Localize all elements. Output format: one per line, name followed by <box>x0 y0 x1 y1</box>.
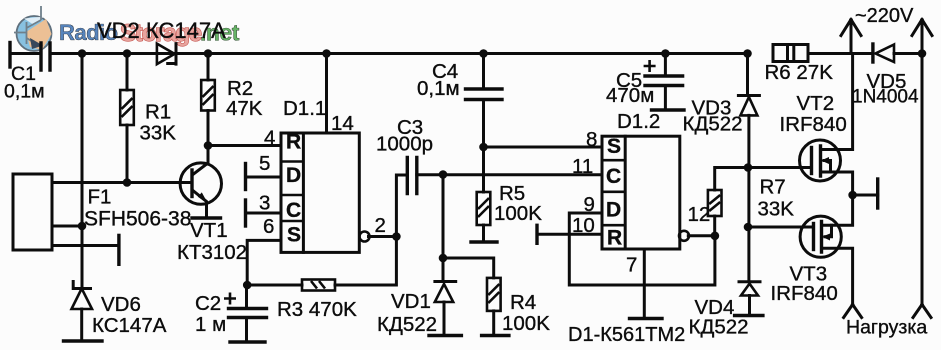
diode VD5 <box>871 44 874 62</box>
svg-text:7: 7 <box>626 254 637 277</box>
capacitor C1 <box>41 43 50 70</box>
pin 6 wire (S) <box>247 240 281 285</box>
svg-text:100K: 100K <box>502 312 550 335</box>
resistor R2 <box>207 54 210 146</box>
node: main supply rail <box>10 52 41 55</box>
svg-text:0,1м: 0,1м <box>417 77 460 100</box>
pin 2 output bubble <box>360 232 370 242</box>
svg-text:VT1: VT1 <box>190 219 228 242</box>
svg-text:R7: R7 <box>760 176 786 199</box>
svg-text:D1.2: D1.2 <box>617 110 660 133</box>
diode VD3 <box>746 54 749 95</box>
svg-text:R: R <box>607 227 622 250</box>
pin 5 stub (D) <box>246 176 282 179</box>
svg-text:C: C <box>606 165 621 188</box>
diode VD4 <box>739 280 760 283</box>
svg-text:VD1: VD1 <box>391 290 431 313</box>
svg-text:SFH506-38: SFH506-38 <box>84 208 191 231</box>
resistor R4 <box>443 258 494 278</box>
logo text <box>59 20 240 48</box>
svg-text:6: 6 <box>263 215 274 238</box>
svg-text:4: 4 <box>264 127 275 150</box>
D flip-flop D1.1 <box>281 133 359 252</box>
svg-text:33K: 33K <box>140 122 177 145</box>
transistor VT1 <box>180 163 221 204</box>
zener VD6 <box>73 282 90 289</box>
svg-text:0,1м: 0,1м <box>4 81 45 103</box>
capacitor C4 <box>482 54 485 90</box>
svg-text:1 м: 1 м <box>195 313 226 336</box>
input terminal bar <box>8 43 11 68</box>
mains input arrows ~220V <box>841 20 861 54</box>
svg-text:470м: 470м <box>606 84 654 107</box>
svg-text:D: D <box>606 199 621 222</box>
pin 12 output bubble <box>679 231 689 241</box>
svg-text:КС147А: КС147А <box>92 314 167 337</box>
resistor R6 <box>773 45 808 62</box>
pin 7 ground <box>643 249 646 319</box>
capacitor C3 <box>396 175 407 237</box>
svg-text:D1-К561ТМ2: D1-К561ТМ2 <box>568 324 685 346</box>
svg-text:КД522: КД522 <box>689 316 749 339</box>
svg-text:R3 470K: R3 470K <box>277 298 357 321</box>
svg-text:R1: R1 <box>145 101 171 124</box>
svg-text:C: C <box>286 199 301 222</box>
transistor VT3 (MOSFET) <box>800 216 841 257</box>
svg-text:2: 2 <box>375 214 386 237</box>
svg-text:47K: 47K <box>226 97 263 120</box>
svg-text:Нагрузка: Нагрузка <box>846 317 927 339</box>
svg-text:VD6: VD6 <box>101 293 141 316</box>
svg-text:S: S <box>287 224 301 247</box>
svg-text:14: 14 <box>331 112 354 135</box>
svg-text:33K: 33K <box>758 198 795 221</box>
svg-text:1N4004: 1N4004 <box>852 87 919 108</box>
svg-text:5: 5 <box>259 152 270 175</box>
svg-text:R6 27K: R6 27K <box>765 61 834 84</box>
svg-text:100K: 100K <box>494 202 542 225</box>
load fork terminals <box>844 305 862 318</box>
svg-text:F1: F1 <box>88 186 112 209</box>
svg-text:VT2: VT2 <box>797 92 835 115</box>
pin 9 (D) feedback wire <box>569 213 715 285</box>
diode VD1 <box>442 175 445 282</box>
svg-text:КД522: КД522 <box>377 313 437 336</box>
wire: pin 8 (S) <box>484 146 603 149</box>
svg-text:11: 11 <box>572 155 593 178</box>
pin 4 wire (R) <box>208 144 281 147</box>
common source node bar <box>848 191 857 200</box>
resistor R1 <box>126 54 129 183</box>
svg-text:1000p: 1000p <box>376 133 433 156</box>
capacitor C2 <box>245 285 248 342</box>
wire: C1 junction down to F1 <box>81 54 84 289</box>
svg-text:VD2 КС147А: VD2 КС147А <box>97 18 226 43</box>
svg-text:КД522: КД522 <box>683 113 743 136</box>
pin 14 wire <box>325 54 328 134</box>
resistor R5 <box>482 147 485 192</box>
svg-text:3: 3 <box>259 192 270 215</box>
D flip-flop D1.2 <box>602 136 680 249</box>
svg-text:8: 8 <box>586 128 597 151</box>
transistor VT2 (MOSFET) <box>800 140 841 181</box>
wire: C3 to pin 11 <box>417 173 602 176</box>
svg-text:КТ3102: КТ3102 <box>177 241 247 264</box>
logo icon <box>14 6 52 55</box>
svg-text:C2: C2 <box>195 292 221 315</box>
IR receiver F1 <box>13 174 52 250</box>
svg-text:D1.1: D1.1 <box>283 97 326 120</box>
capacitor C5 <box>664 54 667 76</box>
svg-text:IRF840: IRF840 <box>780 113 847 136</box>
svg-text:IRF840: IRF840 <box>771 282 838 305</box>
resistor R3 <box>247 237 396 286</box>
resistor R7 <box>715 168 748 236</box>
pin 3 stub (C) <box>246 212 282 215</box>
svg-text:R: R <box>286 131 301 154</box>
pin 10 (R) stub <box>537 233 602 236</box>
svg-text:R4: R4 <box>510 291 536 314</box>
svg-text:D: D <box>286 164 301 187</box>
svg-text:~220V: ~220V <box>855 5 914 27</box>
svg-text:S: S <box>607 135 621 158</box>
diode VD2 (zener КС147А) <box>157 44 175 65</box>
